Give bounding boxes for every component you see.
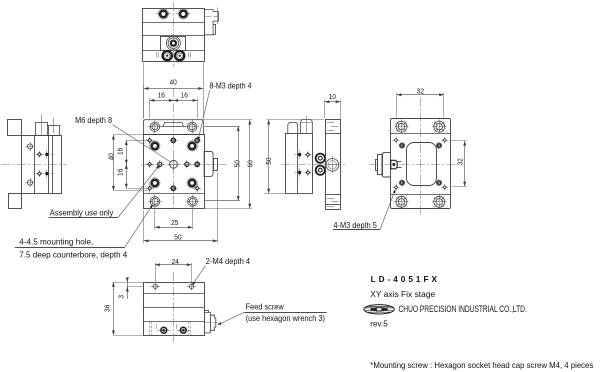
svg-text:(use hexagon wrench 3): (use hexagon wrench 3) — [246, 314, 326, 323]
middle view diamonds — [305, 154, 312, 156]
dim 16 16 top — [149, 98, 151, 119]
left view dot P2 — [46, 169, 48, 177]
bottom view feed screw knob — [204, 310, 209, 312]
right view cbore TR — [432, 126, 446, 128]
top view thread ticks — [156, 52, 158, 57]
left view diamond D2 — [36, 173, 43, 175]
projection line TV-MV right — [203, 63, 205, 119]
svg-text:36: 36 — [102, 305, 111, 312]
main view Y feed knob — [204, 152, 213, 177]
svg-text:40: 40 — [170, 77, 177, 86]
svg-text:Assembly use only: Assembly use only — [50, 209, 114, 218]
left view centerline — [2, 164, 68, 166]
svg-text:60: 60 — [246, 160, 255, 167]
main view band cbore R — [185, 126, 199, 128]
right view screw BL — [399, 182, 405, 184]
left view top screws side — [36, 123, 48, 136]
right view M3 diamond TR — [441, 140, 448, 142]
main view assembly hole R — [183, 164, 191, 166]
left view body — [22, 136, 62, 194]
svg-text:CHUO PRECISION INDUSTRIAL CO.,: CHUO PRECISION INDUSTRIAL CO.,LTD. — [399, 304, 527, 314]
bottom view screw ring L — [157, 330, 170, 332]
main view M3 holes top row — [146, 140, 154, 142]
main view horizontal centerline — [141, 164, 227, 166]
dim 3 bottom view — [127, 278, 129, 299]
right view horizontal centerline — [370, 164, 456, 166]
bottom view M4 hole R — [187, 286, 197, 288]
svg-text:XY axis Fix stage: XY axis Fix stage — [370, 290, 435, 299]
left view top tab — [8, 120, 22, 136]
svg-text:16: 16 — [158, 91, 165, 100]
main view mid row M3 right — [193, 164, 201, 166]
bottom view body — [144, 283, 205, 336]
svg-text:4-4.5 mounting hole,: 4-4.5 mounting hole, — [19, 238, 93, 247]
projection 50-60 ext lines right of main view — [204, 126, 238, 128]
main view band cbore L — [148, 126, 162, 128]
main view dark screw TR — [187, 141, 197, 151]
top view feed knob ring K1 — [163, 51, 172, 60]
right view screw TL — [399, 145, 405, 147]
left view diamond D1 — [36, 154, 43, 156]
top view Y knob — [204, 10, 218, 35]
middle view knob ring K1 — [316, 154, 325, 163]
company logo — [364, 305, 395, 314]
svg-text:*Mounting screw : Hexagon sock: *Mounting screw : Hexagon socket head ca… — [370, 361, 593, 370]
middle view centerline — [282, 164, 346, 166]
right view plate — [391, 119, 451, 209]
left view hole H2 — [25, 182, 34, 184]
svg-text:10: 10 — [329, 92, 336, 101]
svg-text:16: 16 — [116, 148, 125, 155]
bottom view M4 hole L — [150, 286, 160, 288]
top view outline — [143, 9, 205, 62]
dim 32 right right view — [450, 140, 467, 142]
middle view body — [286, 134, 313, 194]
bottom view hidden dashes — [149, 322, 151, 336]
left view dot P1 — [46, 150, 48, 158]
svg-text:2-M4 depth 4: 2-M4 depth 4 — [206, 257, 251, 266]
main view square body — [144, 135, 205, 209]
main view M3 holes bottom row — [146, 188, 154, 190]
svg-text:16: 16 — [116, 169, 125, 176]
middle view flange bottom thread block — [325, 194, 340, 196]
svg-text:50: 50 — [174, 232, 181, 241]
bottom view knob centerline — [205, 322, 219, 324]
dim 10 top middle view — [324, 100, 326, 119]
dim 60 right — [204, 119, 252, 121]
main view mid row M3 left — [146, 164, 154, 166]
top view vertical centerline — [173, 2, 175, 67]
svg-text:40: 40 — [106, 153, 115, 160]
dim 32 top right view — [396, 93, 398, 118]
main view assembly hole — [156, 164, 164, 166]
bottom view centerline — [173, 272, 175, 345]
top view screw S2 — [176, 13, 191, 15]
right view M3 diamond BR — [441, 187, 448, 189]
svg-text:7.5 deep counterbore, depth 4: 7.5 deep counterbore, depth 4 — [19, 251, 128, 260]
dim 40 left — [113, 134, 144, 136]
svg-text:50: 50 — [233, 160, 242, 167]
right view screw TR — [436, 145, 442, 147]
main view dark screw BL — [150, 178, 160, 188]
dim 16 16 left — [126, 140, 146, 142]
main view bottom band line — [144, 193, 205, 195]
dim 50 middle view — [267, 119, 325, 121]
top view pocket — [161, 37, 186, 51]
bottom view screw ring R — [177, 330, 190, 332]
left view bottom tab — [9, 194, 22, 209]
svg-text:8-M3 depth 4: 8-M3 depth 4 — [210, 81, 253, 90]
svg-text:32: 32 — [456, 158, 465, 165]
right view screw BR — [436, 182, 442, 184]
main view M6 center hole — [168, 164, 180, 166]
main view mounting cbore BR — [186, 201, 200, 203]
dim 24 bottom view — [155, 263, 157, 283]
right view cbore BL — [394, 201, 408, 203]
middle view knob ring K2 — [316, 166, 325, 175]
right view center pocket — [407, 143, 437, 186]
svg-text:25: 25 — [171, 218, 178, 227]
top view feed knob ring K2 — [175, 51, 184, 60]
right view cbore BR — [432, 201, 446, 203]
top view screw S1 — [156, 13, 171, 15]
svg-text:4-M3 depth 5: 4-M3 depth 5 — [333, 221, 377, 230]
svg-text:LD-4051FX: LD-4051FX — [371, 275, 440, 284]
middle view top screw B — [301, 120, 313, 134]
right view cbore TL — [394, 126, 408, 128]
dim 40 top — [143, 86, 145, 118]
right view feed screw nut — [391, 160, 397, 169]
top view knob centerline — [205, 16, 221, 18]
left view hole H1 — [25, 146, 34, 148]
middle view dot screws — [299, 150, 301, 158]
right view vertical centerline — [420, 98, 422, 215]
top view center screw M6 washer — [166, 36, 180, 50]
right view M3 diamond TL — [393, 140, 400, 142]
main view top plate band — [144, 120, 204, 135]
middle view top screw A — [288, 122, 298, 133]
right view X knob — [382, 152, 390, 177]
svg-text:M6 depth 8: M6 depth 8 — [75, 116, 112, 125]
svg-text:16: 16 — [181, 91, 188, 100]
main view band notch — [163, 123, 183, 127]
middle view screw circle crosshair — [324, 164, 341, 166]
main view dark screw BR — [187, 178, 197, 188]
main view dark screw TL — [150, 141, 160, 151]
dim 50 bottom — [143, 211, 145, 244]
main view mounting cbore BL — [148, 201, 162, 203]
dim 50 right — [204, 126, 240, 128]
dim 25 bottom — [154, 208, 156, 229]
svg-text:Feed screw: Feed screw — [246, 303, 284, 312]
dim 36 bottom view — [113, 282, 145, 284]
middle view side flange plate — [326, 120, 341, 210]
svg-text:rev.5: rev.5 — [370, 319, 388, 328]
middle view flange top thread block — [325, 133, 340, 135]
main view vertical centerline — [173, 88, 175, 212]
right view M3 diamond BL — [393, 187, 400, 189]
projection line TV-MV left — [143, 63, 145, 119]
svg-text:3: 3 — [116, 295, 125, 299]
